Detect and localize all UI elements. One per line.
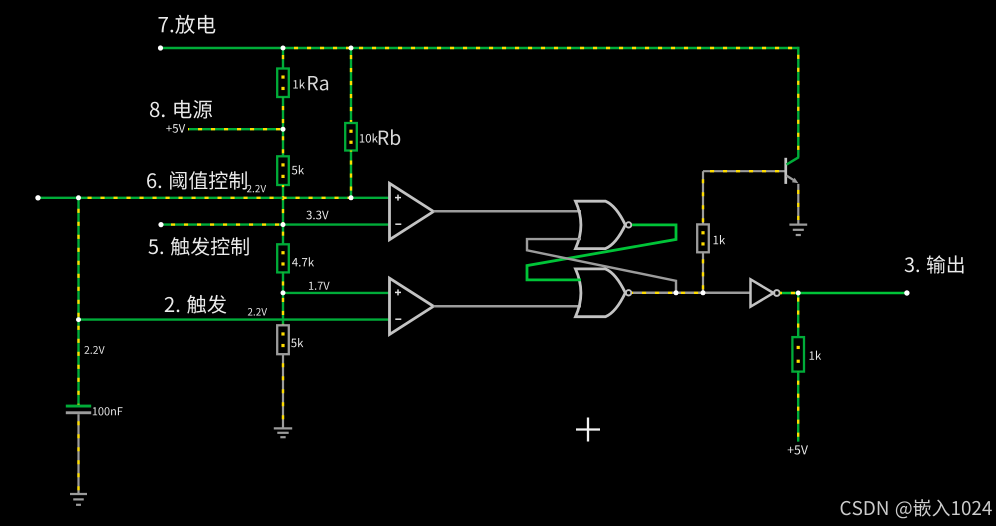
net label pin3 output 3.ShuChu (905, 255, 964, 273)
label output +5V (788, 445, 808, 454)
label cap 2.2V (84, 346, 104, 354)
wire comp2 output (434, 305, 582, 308)
ground emitter (789, 225, 807, 235)
wire feedback Q green (527, 225, 676, 280)
resistor divider 5k lower (277, 293, 289, 428)
resistor base 1k (697, 171, 709, 293)
net label pin8 supply 8.DianYuan (150, 100, 212, 119)
junction divider 1.7V node (281, 290, 286, 295)
node pin3 open end (904, 290, 909, 295)
junction base resistor tap (701, 290, 706, 295)
node pin6 open end (35, 195, 40, 200)
label trigger 2.2V (248, 308, 267, 316)
label threshold 2.2V (247, 185, 266, 193)
net label pin2 trigger 2.ChuFa (165, 295, 227, 314)
wire pin3 output (780, 292, 907, 295)
node pin7 open end (158, 45, 163, 50)
wire +5V supply feed (188, 128, 283, 130)
junction Rb bottom (349, 195, 354, 200)
wire feedback Qbar gray (527, 239, 676, 293)
resistor output 1k (792, 293, 804, 442)
wire divider 1.7V to comp2 plus (283, 292, 390, 294)
junction Rb top (349, 46, 354, 51)
junction Ra top (281, 46, 286, 51)
capacitor C1 100nF (66, 405, 91, 494)
ground divider (274, 428, 292, 437)
net label pin5 control 5.ChuFaKongZhi (148, 237, 248, 256)
wire G2 output (632, 292, 751, 295)
op-amp comparator U2 trigger (390, 278, 434, 334)
junction output pull tap (796, 291, 801, 296)
junction trigger tap (76, 317, 81, 322)
net label pin6 threshold 6.YuZhiKongZhi (147, 171, 247, 189)
ground capacitor (70, 494, 87, 505)
nor-gate G1 set (576, 201, 632, 248)
label 100nF (93, 407, 123, 415)
junction +5V node (281, 127, 286, 132)
wire discharge top rail (161, 47, 799, 158)
label Ra value 1k (293, 79, 305, 88)
op-amp comparator U1 threshold (390, 183, 434, 239)
resistor Ra 1k (277, 48, 289, 129)
label +5V supply (166, 124, 185, 133)
label Rb name (379, 129, 400, 145)
label Ra name (308, 76, 328, 91)
resistor divider 5k upper (277, 129, 289, 224)
label base 1k (714, 235, 726, 244)
transistor Q1 discharge NPN (784, 157, 798, 223)
node pin5 open end (158, 222, 163, 227)
wire transistor base (703, 170, 785, 172)
label 5k upper (292, 165, 304, 174)
label Rb value 10k (360, 133, 378, 142)
label output 1k (810, 351, 822, 360)
junction threshold-cap node (76, 195, 81, 200)
wire threshold pin6 (38, 197, 390, 199)
inverter U3 output buffer (751, 279, 780, 306)
junction divider 3.3V node (281, 222, 286, 227)
wire cap branch vertical (77, 198, 79, 405)
nor-gate G2 reset (576, 269, 632, 317)
junction feedback tap (674, 290, 679, 295)
resistor divider 4.7k (277, 225, 289, 293)
label 4.7k (292, 257, 314, 266)
wire control pin5 (161, 223, 390, 225)
wire trigger pin2 (79, 318, 390, 320)
label 5k lower (291, 338, 303, 347)
label 1.7V (309, 282, 330, 290)
cursor crosshair (576, 418, 600, 442)
resistor Rb 10k (345, 48, 357, 198)
label control 3.3V (306, 211, 328, 220)
watermark CSDN (841, 499, 992, 518)
wire comp1 output (434, 210, 582, 213)
net label pin7 discharge 7.FangDian (159, 15, 216, 34)
